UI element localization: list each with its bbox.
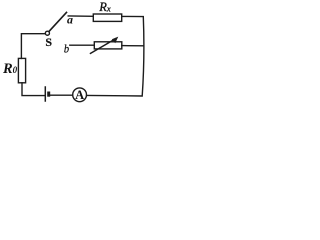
svg-text:b: b [64, 44, 69, 56]
svg-text:a: a [67, 13, 73, 27]
svg-text:S: S [45, 35, 52, 49]
svg-text:A: A [75, 88, 84, 102]
